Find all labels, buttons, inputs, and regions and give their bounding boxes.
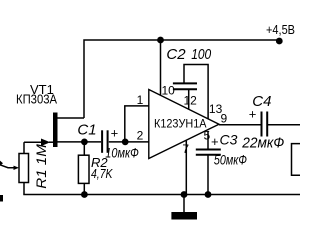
svg-text:5: 5 (204, 129, 211, 143)
svg-text:100: 100 (191, 46, 212, 63)
svg-text:4,7K: 4,7K (91, 166, 114, 181)
svg-text:+4,5В: +4,5В (266, 23, 295, 37)
svg-text:10: 10 (162, 84, 176, 98)
svg-text:10мкФ: 10мкФ (105, 146, 139, 161)
svg-text:+: + (211, 134, 219, 149)
svg-text:R1 1М: R1 1М (33, 144, 49, 189)
svg-text:КП303А: КП303А (16, 92, 57, 107)
svg-text:+: + (111, 126, 119, 141)
svg-text:C4: C4 (252, 93, 271, 110)
svg-text:7: 7 (182, 142, 189, 156)
svg-text:C1: C1 (77, 122, 96, 139)
svg-text:1: 1 (137, 93, 144, 107)
svg-text:C2: C2 (166, 46, 186, 63)
svg-text:50мкФ: 50мкФ (214, 153, 247, 168)
svg-text:C3: C3 (220, 132, 238, 148)
svg-text:К123УН1А: К123УН1А (154, 117, 207, 131)
svg-text:22мкФ: 22мкФ (241, 135, 284, 152)
svg-text:9: 9 (221, 112, 228, 126)
svg-text:12: 12 (184, 94, 198, 108)
svg-text:2: 2 (137, 128, 144, 142)
